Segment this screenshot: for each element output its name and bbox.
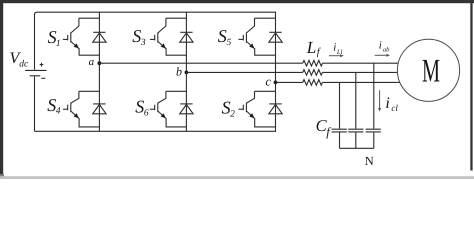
IGBT S4 gate bar bbox=[67, 105, 69, 111]
svg-text:3: 3 bbox=[140, 38, 146, 48]
node b dot bbox=[185, 71, 189, 75]
node c dot bbox=[274, 81, 278, 85]
battery Vdc positive plate bbox=[25, 69, 46, 71]
svg-text:i: i bbox=[385, 95, 389, 112]
bottom scan shadow bbox=[0, 176, 474, 179]
diode D5 triangle bbox=[269, 33, 282, 42]
diode D1 cathode bar bbox=[93, 31, 105, 33]
IGBT S6 collector drop bbox=[158, 91, 166, 103]
motor M circle bbox=[397, 39, 459, 101]
IGBT S2 gate bar bbox=[242, 105, 244, 111]
svg-text:c: c bbox=[265, 74, 271, 88]
left scan border bbox=[0, 2, 3, 174]
current arrow icl (down) bbox=[379, 90, 381, 109]
IGBT S4 body bar bbox=[70, 103, 72, 113]
IGBT S4 collector drop bbox=[71, 91, 79, 103]
svg-text:L: L bbox=[306, 38, 316, 57]
svg-text:S: S bbox=[132, 26, 141, 46]
svg-text:a: a bbox=[89, 56, 95, 68]
svg-text:4: 4 bbox=[56, 107, 61, 117]
svg-text:1: 1 bbox=[56, 39, 61, 49]
inductor Lf phase a zigzag bbox=[303, 60, 323, 66]
svg-text:cl: cl bbox=[391, 103, 398, 113]
svg-text:Ll: Ll bbox=[336, 49, 343, 56]
capacitor Cf plates phase b bbox=[348, 129, 363, 132]
inductor Lf phase b zigzag bbox=[303, 70, 323, 76]
svg-text:dc: dc bbox=[19, 60, 29, 70]
capacitor branch phase a vertical bbox=[373, 63, 375, 148]
capacitor branch phase c vertical bbox=[339, 82, 341, 148]
IGBT S4 gate lead bbox=[63, 108, 68, 110]
neutral bus wire bbox=[340, 147, 374, 149]
IGBT S6 gate lead bbox=[150, 108, 155, 110]
IGBT S2 gate lead bbox=[239, 108, 244, 110]
IGBT S1 collector tap bbox=[79, 17, 100, 19]
inductor Lf phase c zigzag bbox=[303, 80, 323, 86]
diode D6 triangle bbox=[180, 105, 193, 114]
capacitor Cf plates phase a bbox=[366, 129, 381, 132]
svg-text:5: 5 bbox=[227, 38, 232, 48]
capacitor Cf plates phase c bbox=[332, 129, 347, 132]
IGBT S5 gate lead bbox=[239, 38, 244, 40]
svg-text:M: M bbox=[422, 54, 440, 90]
IGBT S5 collector drop bbox=[246, 18, 254, 33]
top scan border bbox=[0, 0, 474, 3]
svg-text:i: i bbox=[379, 40, 382, 52]
phase line a bbox=[99, 62, 398, 64]
IGBT S3 gate bar bbox=[154, 35, 156, 41]
svg-text:S: S bbox=[218, 26, 227, 46]
battery plus sign bbox=[40, 63, 44, 67]
current arrow iLl bbox=[329, 55, 342, 57]
diode D1 triangle bbox=[93, 33, 106, 42]
battery Vdc negative plate bbox=[30, 75, 41, 77]
IGBT S5 collector tap bbox=[255, 17, 276, 19]
inverter box top rail (DC bus +) bbox=[37, 11, 276, 13]
svg-text:S: S bbox=[135, 97, 144, 117]
phase line b bbox=[186, 71, 397, 73]
IGBT S6 gate bar bbox=[154, 105, 156, 111]
inverter box left edge with battery gap bbox=[35, 12, 38, 131]
capacitor branch phase b vertical bbox=[355, 72, 357, 148]
svg-text:6: 6 bbox=[144, 109, 149, 119]
IGBT S1 collector drop bbox=[71, 18, 79, 33]
inverter box bottom rail (DC bus -) bbox=[35, 130, 277, 132]
IGBT S5 body bar bbox=[245, 32, 247, 42]
IGBT S3 gate lead bbox=[150, 38, 155, 40]
diode D5 cathode bar bbox=[269, 31, 281, 33]
leg 3 vertical wire (x=275.0) bbox=[275, 12, 277, 131]
node a dot bbox=[98, 61, 102, 65]
IGBT S1 body bar bbox=[70, 32, 72, 42]
IGBT S1 gate bar bbox=[67, 35, 69, 41]
IGBT S4 collector tap bbox=[79, 90, 100, 92]
IGBT S3 collector tap bbox=[166, 17, 187, 19]
phase line c bbox=[276, 81, 400, 83]
diode D2 triangle bbox=[269, 105, 282, 114]
leg 1 vertical wire (x=99.4) bbox=[98, 12, 100, 131]
diode D3 triangle bbox=[180, 33, 193, 42]
IGBT S2 collector tap bbox=[255, 90, 276, 92]
IGBT S2 body bar bbox=[245, 103, 247, 113]
diode D4 triangle bbox=[93, 105, 106, 114]
diode D3 cathode bar bbox=[180, 31, 192, 33]
IGBT S6 body bar bbox=[157, 103, 159, 113]
IGBT S3 body bar bbox=[157, 32, 159, 42]
svg-text:b: b bbox=[176, 64, 182, 78]
svg-text:i: i bbox=[333, 42, 336, 54]
IGBT S4 emitter with arrow bbox=[71, 111, 100, 127]
diode D4 cathode bar bbox=[93, 103, 105, 105]
svg-text:2: 2 bbox=[230, 109, 235, 119]
IGBT S1 gate lead bbox=[63, 38, 68, 40]
IGBT S6 collector tap bbox=[166, 90, 187, 92]
IGBT S1 emitter with arrow bbox=[71, 41, 100, 55]
IGBT S5 gate bar bbox=[242, 35, 244, 41]
IGBT S3 emitter with arrow bbox=[158, 41, 187, 55]
right scan border bbox=[470, 3, 472, 171]
leg 2 vertical wire (x=186.4) bbox=[185, 12, 187, 131]
IGBT S6 emitter with arrow bbox=[158, 111, 187, 127]
IGBT S2 emitter with arrow bbox=[246, 111, 275, 127]
svg-text:ab: ab bbox=[383, 47, 390, 54]
IGBT S5 emitter with arrow bbox=[246, 41, 275, 55]
IGBT S3 collector drop bbox=[158, 18, 166, 33]
current arrow iab bbox=[375, 54, 388, 56]
diode D2 cathode bar bbox=[269, 103, 281, 105]
battery minus sign bbox=[41, 77, 45, 79]
svg-text:N: N bbox=[365, 154, 374, 168]
diode D6 cathode bar bbox=[180, 103, 192, 105]
IGBT S2 collector drop bbox=[246, 91, 254, 103]
